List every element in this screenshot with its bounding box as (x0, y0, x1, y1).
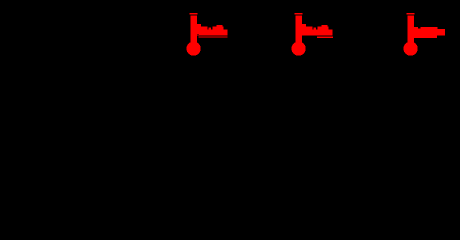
temperature sensor TH3 (404, 13, 446, 56)
temperature sensor TH2 (292, 13, 334, 56)
TH2 stem (295, 15, 302, 43)
TH1 cap tick (190, 13, 198, 15)
TH1 stem (190, 15, 197, 43)
temperature sensor TH1 (187, 13, 228, 56)
TH1 value label text (197, 24, 228, 37)
TH1 bulb (187, 42, 201, 56)
TH3 cap tick (407, 13, 415, 15)
TH3 stem (407, 15, 414, 43)
TH3 value label text (414, 27, 445, 38)
TH2 value label text (302, 24, 333, 38)
TH2 cap tick (295, 13, 303, 15)
TH2 bulb (292, 42, 306, 56)
TH3 bulb (404, 42, 418, 56)
